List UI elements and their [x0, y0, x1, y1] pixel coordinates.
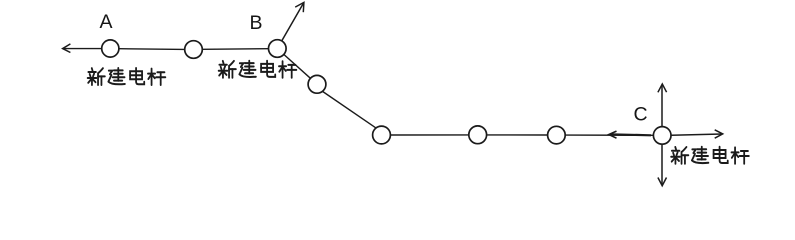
pole 7 circle	[548, 126, 566, 144]
pole 2 circle	[185, 41, 203, 59]
wire: pole 4 to pole 5	[323, 92, 376, 128]
wire: B to pole 4	[284, 55, 310, 79]
arrowhead right at C	[715, 130, 723, 138]
wire: up arrow shaft at C	[661, 85, 663, 127]
svg-text:A: A	[100, 11, 113, 33]
pole 5 circle	[373, 126, 391, 144]
wire: down arrow shaft at C	[661, 145, 663, 185]
wire: A to middle pole	[119, 48, 184, 51]
pole A circle	[102, 40, 119, 57]
pole 4 circle	[308, 75, 326, 93]
label new pole at A	[88, 68, 166, 85]
pole B circle	[269, 40, 287, 58]
wire: middle pole to B	[203, 48, 269, 51]
pole 6 circle	[469, 126, 487, 144]
pole C circle	[653, 127, 671, 145]
arrowhead up-right at B	[295, 2, 304, 12]
svg-text:B: B	[250, 12, 263, 34]
wire: arrow overlap shaft from C to mid-wire tip	[610, 134, 651, 135]
wire: pole 5 to pole 6	[391, 134, 469, 136]
wire: branch arrow shaft up-right from B	[282, 4, 303, 41]
wire: right arrow shaft at C	[671, 134, 722, 135]
svg-text:C: C	[634, 103, 648, 125]
label new pole at B	[219, 61, 297, 78]
wire: pole 6 to pole 7	[487, 134, 547, 136]
arrowhead down at C	[658, 178, 667, 186]
arrowhead up at C	[658, 84, 667, 92]
arrowhead left mid-wire before C	[609, 131, 617, 138]
wire: left arrow shaft from pole A	[63, 48, 102, 50]
arrowhead left at A	[63, 44, 71, 53]
wire: pole 7 to C with left arrow	[565, 134, 653, 136]
label new pole at C	[671, 147, 749, 164]
